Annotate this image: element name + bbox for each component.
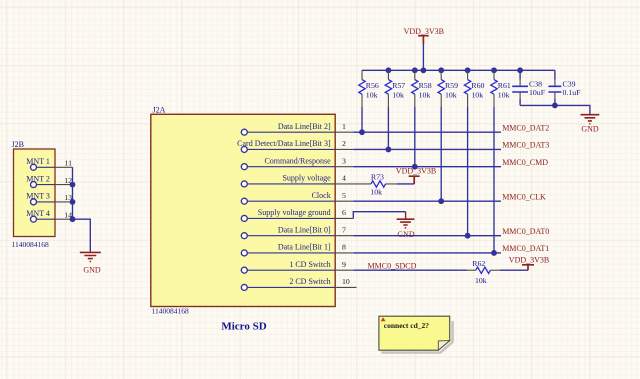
wire pin1 [353, 131, 501, 133]
svg-text:10k: 10k [392, 90, 404, 99]
pin 6 Supply voltage ground [241, 208, 353, 221]
svg-text:GND: GND [83, 266, 101, 275]
junction pin2/R57 [386, 147, 392, 153]
svg-text:1140084168: 1140084168 [12, 240, 49, 249]
pin 10 2 CD Switch [241, 277, 356, 290]
svg-text:9: 9 [342, 260, 346, 269]
svg-text:MMC0_DAT0: MMC0_DAT0 [502, 227, 549, 236]
svg-text:GND: GND [581, 124, 599, 133]
wire pin6 to ground [353, 212, 405, 219]
svg-text:1140084168: 1140084168 [152, 307, 189, 316]
resistor R60 [464, 70, 484, 107]
connector J2A body [151, 105, 335, 332]
junction bus/R58 [412, 67, 418, 73]
svg-text:J2A: J2A [153, 105, 166, 114]
wire R57 to pin2 [387, 107, 389, 149]
wire R73 to VDD stub [397, 183, 415, 185]
junction pin3/R58 [412, 164, 418, 170]
svg-text:Clock: Clock [312, 191, 331, 200]
svg-text:1 CD Switch: 1 CD Switch [289, 260, 330, 269]
ground GND (right) [581, 115, 600, 134]
svg-text:VDD_3V3B: VDD_3V3B [396, 167, 436, 176]
resistor R58 [412, 70, 432, 107]
pin 8 Data Line[Bit 1] [241, 243, 353, 256]
wire R62 to VDD stub [499, 269, 528, 271]
svg-text:R60: R60 [471, 81, 484, 90]
svg-text:MMC0_DAT2: MMC0_DAT2 [502, 123, 549, 132]
power VDD_3V3B (top) [404, 27, 444, 70]
svg-text:5: 5 [342, 191, 346, 200]
wire MNT4 to ground [73, 219, 91, 252]
svg-text:R58: R58 [419, 81, 432, 90]
capacitor C39 [548, 70, 581, 105]
resistor R73 [353, 172, 396, 196]
wire R56 to pin1 [361, 107, 363, 132]
svg-text:7: 7 [342, 225, 346, 234]
svg-text:10k: 10k [370, 187, 382, 196]
junction bus/R61 [491, 67, 497, 73]
resistor R56 [359, 70, 379, 107]
svg-text:10k: 10k [366, 90, 378, 99]
svg-text:1: 1 [342, 122, 346, 131]
svg-text:Supply voltage: Supply voltage [282, 174, 331, 183]
ground GND (left) [80, 252, 101, 274]
junction at MNT4 [70, 216, 76, 222]
svg-text:0.1uF: 0.1uF [563, 88, 582, 97]
svg-text:10k: 10k [471, 90, 483, 99]
resistor R62 [467, 259, 499, 285]
svg-text:10k: 10k [475, 276, 487, 285]
pin MNT 2 (12) [26, 174, 72, 187]
junction bus/C38 [517, 67, 523, 73]
svg-text:10k: 10k [445, 90, 457, 99]
pin MNT 3 (13) [26, 192, 72, 205]
wire pin2 [353, 148, 501, 150]
capacitor C38 [512, 70, 545, 105]
svg-text:10: 10 [342, 277, 350, 286]
svg-text:Micro SD: Micro SD [221, 320, 266, 332]
svg-text:2: 2 [342, 139, 346, 148]
svg-text:MMC0_SDCD: MMC0_SDCD [368, 261, 417, 270]
svg-text:MMC0_DAT1: MMC0_DAT1 [502, 244, 549, 253]
svg-text:4: 4 [342, 174, 346, 183]
svg-text:R57: R57 [392, 81, 405, 90]
svg-text:C38: C38 [529, 79, 542, 88]
svg-text:Data Line[Bit 2]: Data Line[Bit 2] [278, 122, 331, 131]
wire R58 to pin3 [414, 107, 416, 167]
svg-text:Data Line[Bit 1]: Data Line[Bit 1] [278, 243, 331, 252]
pin 3 Command/Response [241, 156, 353, 169]
junction bus/R59 [438, 67, 444, 73]
pin 7 Data Line[Bit 0] [241, 225, 353, 238]
svg-text:Card Detect/Data Line[Bit 3]: Card Detect/Data Line[Bit 3] [237, 139, 331, 148]
resistor R59 [438, 70, 458, 107]
pin 5 Clock [241, 191, 353, 204]
svg-text:connect cd_2?: connect cd_2? [384, 321, 429, 330]
wire R60 to pin7 [467, 107, 469, 236]
wire caps bottom to ground [520, 105, 590, 114]
svg-text:3: 3 [342, 156, 346, 165]
svg-text:Supply voltage ground: Supply voltage ground [258, 208, 331, 217]
svg-text:R73: R73 [371, 172, 384, 181]
svg-text:R59: R59 [445, 81, 458, 90]
svg-text:MNT 4: MNT 4 [26, 209, 50, 218]
junction pin8/R61 [491, 250, 497, 256]
junction caps bottom [552, 103, 558, 109]
junction pin5/R59 [438, 198, 444, 204]
junction pin7/R60 [465, 233, 471, 239]
svg-text:10k: 10k [498, 90, 510, 99]
svg-text:Command/Response: Command/Response [264, 156, 331, 165]
svg-text:J2B: J2B [12, 140, 24, 149]
junction bus/VDD stub [421, 67, 427, 73]
pin 4 Supply voltage [241, 174, 353, 187]
svg-text:6: 6 [342, 208, 346, 217]
svg-text:8: 8 [342, 243, 346, 252]
connector J2B body [12, 140, 56, 249]
svg-text:11: 11 [64, 159, 72, 168]
junction bus/R60 [465, 67, 471, 73]
pin 2 Card Detect/Data Line[Bit 3] [237, 139, 353, 152]
svg-text:MMC0_CMD: MMC0_CMD [502, 158, 548, 167]
junction pin1/R56 [359, 129, 365, 135]
svg-text:MNT 1: MNT 1 [26, 157, 50, 166]
svg-text:MMC0_CLK: MMC0_CLK [502, 192, 546, 201]
junction bus/R57 [386, 67, 392, 73]
note connect cd_2? [379, 316, 453, 352]
svg-text:R56: R56 [366, 81, 379, 90]
pin MNT 4 (14) [26, 209, 72, 222]
svg-text:R62: R62 [472, 259, 485, 268]
svg-text:C39: C39 [563, 79, 576, 88]
junction at MNT2 [70, 182, 76, 188]
svg-text:MNT 2: MNT 2 [26, 174, 50, 183]
wire R59 to pin5 [440, 107, 442, 201]
ground GND (middle) [397, 212, 415, 240]
pin 1 Data Line[Bit 2] [241, 122, 353, 135]
junction at MNT3 [70, 199, 76, 205]
power VDD_3V3B (middle) [396, 167, 436, 184]
svg-text:MNT 3: MNT 3 [26, 192, 50, 201]
svg-text:10uF: 10uF [529, 88, 546, 97]
power VDD_3V3B (bottom right) [509, 256, 549, 271]
wire J2B bus vertical [72, 167, 74, 219]
wire R61 to pin8 [493, 107, 495, 253]
svg-text:MMC0_DAT3: MMC0_DAT3 [502, 141, 549, 150]
resistor R57 [385, 70, 405, 107]
svg-text:Data Line[Bit 0]: Data Line[Bit 0] [278, 225, 331, 234]
wire pin8 [353, 252, 501, 254]
wire pin5 [353, 200, 501, 202]
svg-text:VDD_3V3B: VDD_3V3B [509, 256, 549, 265]
svg-text:GND: GND [397, 230, 415, 239]
wire top bus [362, 69, 555, 71]
svg-text:2 CD Switch: 2 CD Switch [289, 277, 330, 286]
pin MNT 1 (11) [26, 157, 72, 170]
resistor R61 [491, 70, 511, 107]
svg-text:10k: 10k [419, 90, 431, 99]
svg-text:R61: R61 [498, 81, 511, 90]
wire pin3 [353, 166, 501, 168]
pin 9 1 CD Switch [241, 260, 353, 273]
wire pin7 [353, 235, 501, 237]
wire pin9 left segment [353, 269, 467, 271]
